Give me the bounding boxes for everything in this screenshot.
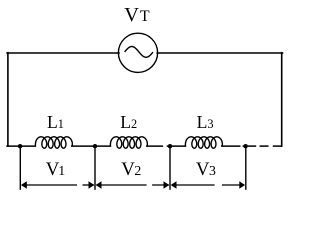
svg-text:V1: V1 xyxy=(46,159,66,180)
svg-text:V2: V2 xyxy=(121,159,141,180)
svg-text:VT: VT xyxy=(124,4,150,26)
svg-text:L3: L3 xyxy=(197,112,214,132)
svg-text:L1: L1 xyxy=(47,112,64,132)
svg-text:V3: V3 xyxy=(196,159,216,180)
svg-text:L2: L2 xyxy=(120,112,137,132)
